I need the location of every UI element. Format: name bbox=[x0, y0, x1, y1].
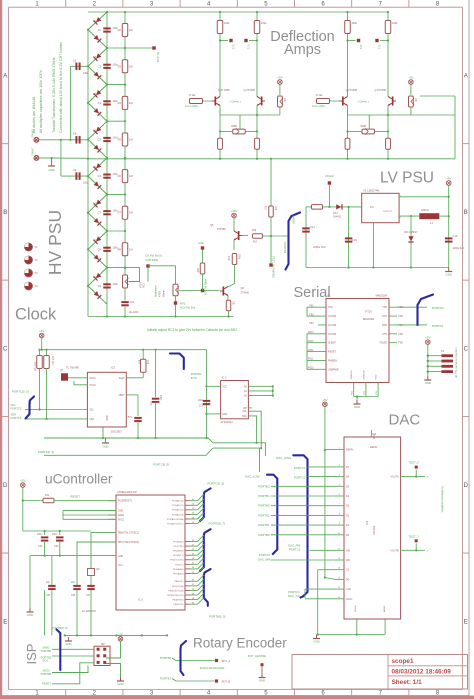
svg-text:PORTB[0..5]: PORTB[0..5] bbox=[51, 626, 68, 630]
svg-text:PORTC[0..5]: PORTC[0..5] bbox=[153, 463, 169, 467]
svg-text:GND: GND bbox=[65, 642, 71, 646]
svg-text:GND: GND bbox=[425, 381, 431, 385]
svg-text:E: E bbox=[3, 619, 7, 625]
svg-text:PORTB[0..5]: PORTB[0..5] bbox=[209, 615, 226, 619]
svg-text:C: C bbox=[3, 347, 8, 353]
svg-text:R19: R19 bbox=[252, 230, 257, 232]
svg-text:100k: 100k bbox=[392, 22, 398, 25]
svg-text:+5V: +5V bbox=[277, 76, 282, 80]
svg-text:50VAC: 50VAC bbox=[31, 147, 35, 155]
svg-text:1M: 1M bbox=[129, 138, 133, 142]
svg-text:B: B bbox=[3, 210, 7, 216]
svg-text:All diodes are 1N4148: All diodes are 1N4148 bbox=[32, 97, 36, 133]
svg-text:F87: F87 bbox=[399, 324, 404, 327]
svg-text:4# TTL serial connection: 4# TTL serial connection bbox=[454, 347, 458, 378]
svg-text:PORTB6: PORTB6 bbox=[160, 656, 172, 660]
svg-text:TEST_Y: TEST_Y bbox=[408, 534, 419, 538]
svg-text:R11 1k0: R11 1k0 bbox=[35, 361, 37, 370]
svg-text:D15: D15 bbox=[93, 277, 98, 279]
svg-text:1M: 1M bbox=[129, 174, 133, 178]
svg-text:ECW1J-B24-BC0024L: ECW1J-B24-BC0024L bbox=[200, 667, 226, 670]
svg-text:GND: GND bbox=[107, 415, 109, 420]
svg-text:RTS: RTS bbox=[382, 315, 387, 318]
svg-text:PD1(TXD): PD1(TXD) bbox=[173, 546, 183, 548]
svg-text:C4: C4 bbox=[98, 101, 102, 105]
svg-text:PORTB4: PORTB4 bbox=[41, 649, 52, 653]
svg-text:GND: GND bbox=[103, 445, 109, 449]
svg-text:MM232R: MM232R bbox=[363, 317, 374, 321]
svg-text:IC 5: IC 5 bbox=[138, 598, 143, 602]
svg-text:ACM Pot End: ACM Pot End bbox=[180, 307, 196, 310]
svg-text:IC4: IC4 bbox=[365, 520, 369, 525]
svg-text:From ADC: From ADC bbox=[185, 104, 198, 108]
svg-text:PB2(SS/OC1B): PB2(SS/OC1B) bbox=[168, 590, 183, 592]
svg-text:D: D bbox=[3, 483, 8, 489]
svg-text:LV PSU: LV PSU bbox=[380, 170, 434, 187]
svg-text:PB1(OC1A): PB1(OC1A) bbox=[172, 585, 184, 588]
svg-text:R4: R4 bbox=[118, 101, 122, 105]
svg-text:5.0: 5.0 bbox=[370, 205, 374, 209]
svg-text:scope1: scope1 bbox=[392, 658, 414, 665]
svg-text:08/03/2012 18:46:09: 08/03/2012 18:46:09 bbox=[392, 668, 452, 675]
svg-text:2200u 35V: 2200u 35V bbox=[313, 245, 326, 249]
svg-text:PD2(INT0): PD2(INT0) bbox=[173, 551, 184, 553]
svg-text:VCC: VCC bbox=[222, 386, 227, 388]
svg-text:DAC_LOW: DAC_LOW bbox=[245, 474, 260, 478]
svg-text:SCL: SCL bbox=[242, 411, 247, 413]
svg-text:VOUTA: VOUTA bbox=[391, 476, 399, 479]
svg-text:A: A bbox=[464, 74, 468, 80]
svg-text:PORTC[0..5]: PORTC[0..5] bbox=[208, 482, 225, 486]
svg-text:100k: 100k bbox=[261, 22, 267, 25]
svg-text:PORTB3: PORTB3 bbox=[41, 672, 52, 676]
svg-text:X2: X2 bbox=[327, 294, 331, 298]
svg-text:FTDI: FTDI bbox=[365, 310, 371, 314]
svg-text:VCC: VCC bbox=[328, 306, 333, 309]
svg-text:R 1k2: R 1k2 bbox=[316, 94, 323, 97]
svg-text:F86: F86 bbox=[399, 315, 404, 318]
svg-text:SDA: SDA bbox=[11, 412, 17, 416]
svg-text:CS: CS bbox=[346, 569, 350, 572]
svg-text:DS1307: DS1307 bbox=[111, 429, 122, 433]
svg-text:PB6(XTAL1/TOSC1): PB6(XTAL1/TOSC1) bbox=[118, 532, 139, 535]
svg-text:PORTC5: PORTC5 bbox=[11, 407, 22, 411]
svg-text:SLEEP: SLEEP bbox=[328, 342, 336, 345]
svg-text:1N4001: 1N4001 bbox=[333, 216, 342, 219]
svg-text:ZTX450: ZTX450 bbox=[241, 291, 250, 294]
svg-text:IC 3: IC 3 bbox=[222, 377, 227, 380]
svg-text:Rotary Encoder: Rotary Encoder bbox=[193, 635, 287, 650]
svg-text:GND: GND bbox=[222, 414, 227, 416]
svg-text:Connected with about 130 turns: Connected with about 130 turns to the 6.… bbox=[59, 41, 63, 133]
svg-text:ROT_B: ROT_B bbox=[222, 680, 231, 683]
svg-text:PD4(XCK/T0): PD4(XCK/T0) bbox=[170, 560, 184, 562]
svg-text:D13 1N5817: D13 1N5817 bbox=[404, 231, 418, 234]
svg-text:Serial: Serial bbox=[294, 285, 331, 301]
svg-text:+5V: +5V bbox=[39, 329, 44, 333]
svg-text:LDAC: LDAC bbox=[346, 598, 353, 601]
svg-text:220uH: 220uH bbox=[421, 208, 429, 212]
svg-text:PORTB7: PORTB7 bbox=[160, 677, 172, 681]
svg-text:PORTD2: PORTD2 bbox=[191, 372, 202, 376]
svg-text:Q ZTX458: Q ZTX458 bbox=[218, 89, 230, 92]
svg-text:C15: C15 bbox=[352, 238, 357, 242]
svg-text:AVCC: AVCC bbox=[118, 518, 125, 521]
svg-text:PORTC[0..5]: PORTC[0..5] bbox=[12, 390, 29, 394]
svg-text:R3: R3 bbox=[118, 64, 122, 68]
svg-text:PORTB4: PORTB4 bbox=[258, 494, 270, 498]
svg-text:PD7(AIN1): PD7(AIN1) bbox=[173, 572, 184, 575]
svg-text:VOUTB: VOUTB bbox=[390, 549, 399, 552]
svg-text:C9: C9 bbox=[73, 168, 77, 172]
svg-text:100n: 100n bbox=[83, 72, 89, 75]
svg-text:V1 LM2574N: V1 LM2574N bbox=[363, 189, 379, 193]
svg-text:GND: GND bbox=[198, 242, 204, 245]
svg-text:D12: D12 bbox=[333, 211, 338, 215]
svg-text:PB5(SCK): PB5(SCK) bbox=[173, 604, 183, 606]
svg-text:+45V: +45V bbox=[231, 209, 238, 213]
svg-text:HV PSU: HV PSU bbox=[45, 210, 65, 275]
svg-text:PORTC2: PORTC2 bbox=[289, 548, 301, 552]
svg-text:PC6(RESET): PC6(RESET) bbox=[118, 501, 132, 503]
svg-text:C22: C22 bbox=[199, 405, 204, 407]
svg-text:TEST_X: TEST_X bbox=[408, 461, 419, 465]
svg-text:1M: 1M bbox=[129, 211, 133, 215]
svg-text:PC4(ADC4/SDA): PC4(ADC4/SDA) bbox=[167, 518, 184, 521]
svg-text:F85: F85 bbox=[399, 306, 404, 309]
svg-text:200k: 200k bbox=[238, 254, 240, 260]
svg-text:RC1: RC1 bbox=[143, 282, 146, 288]
svg-text:C8: C8 bbox=[98, 247, 102, 251]
svg-text:F89: F89 bbox=[399, 342, 404, 345]
svg-text:C21: C21 bbox=[150, 400, 153, 405]
svg-text:F88: F88 bbox=[399, 333, 404, 336]
svg-text:PB7(XTAL2/TOSC2): PB7(XTAL2/TOSC2) bbox=[118, 541, 139, 544]
svg-text:TXLED: TXLED bbox=[379, 342, 387, 345]
svg-text:100n: 100n bbox=[37, 533, 43, 536]
svg-text:C24: C24 bbox=[54, 545, 59, 548]
svg-text:R5: R5 bbox=[118, 138, 122, 142]
svg-text:C14: C14 bbox=[310, 225, 315, 229]
svg-text:SHIELD2: SHIELD2 bbox=[363, 370, 365, 380]
svg-text:DAC_CS: DAC_CS bbox=[288, 594, 299, 598]
svg-text:Y1/2: Y1/2 bbox=[247, 45, 249, 50]
svg-text:« Drive »: « Drive » bbox=[229, 100, 241, 104]
svg-text:RESET: RESET bbox=[42, 682, 51, 686]
svg-text:C23: C23 bbox=[38, 545, 43, 548]
svg-text:DGND: DGND bbox=[355, 605, 357, 612]
svg-text:PORTD1: PORTD1 bbox=[432, 324, 444, 328]
svg-text:Initially adjust RC1 to give 2: Initially adjust RC1 to give 27v between… bbox=[147, 328, 237, 332]
svg-text:Toroidal Transformer: 0.35v 0.: Toroidal Transformer: 0.35v 0.14v RMS 17… bbox=[52, 57, 56, 133]
svg-text:VDD: VDD bbox=[372, 434, 375, 439]
svg-text:+5V: +5V bbox=[446, 177, 451, 181]
svg-text:VCC3B: VCC3B bbox=[328, 315, 336, 318]
svg-text:100n: 100n bbox=[159, 395, 162, 401]
svg-text:GND: GND bbox=[117, 682, 123, 686]
svg-text:uController: uController bbox=[45, 472, 113, 487]
svg-text:SQW: SQW bbox=[119, 378, 125, 380]
svg-text:MOSI: MOSI bbox=[43, 669, 50, 673]
svg-text:PD0(RXD): PD0(RXD) bbox=[173, 541, 184, 543]
svg-text:BT1: BT1 bbox=[128, 416, 133, 419]
svg-text:C8: C8 bbox=[73, 132, 77, 136]
svg-text:PORTC1: PORTC1 bbox=[294, 466, 306, 470]
svg-text:PD5(T1): PD5(T1) bbox=[175, 564, 184, 566]
svg-text:GND: GND bbox=[27, 613, 33, 617]
svg-text:D: D bbox=[464, 483, 469, 489]
svg-text:C: C bbox=[464, 347, 469, 353]
svg-text:PWREN: PWREN bbox=[328, 359, 337, 362]
svg-text:PD3(INT1): PD3(INT1) bbox=[173, 555, 184, 557]
svg-text:SCK: SCK bbox=[42, 659, 48, 663]
svg-text:PC0(ADC0): PC0(ADC0) bbox=[172, 500, 184, 503]
svg-text:1000u 6v3: 1000u 6v3 bbox=[453, 247, 465, 250]
svg-text:GND: GND bbox=[313, 640, 319, 644]
svg-text:X1/2: X1/2 bbox=[359, 45, 361, 50]
svg-text:+5V: +5V bbox=[408, 76, 413, 80]
svg-text:All multiplier capacitors are: All multiplier capacitors are 100n 100V bbox=[39, 70, 43, 133]
svg-text:WR: WR bbox=[346, 559, 350, 562]
svg-text:D13: D13 bbox=[93, 240, 98, 242]
svg-text:Sheet: 1/1: Sheet: 1/1 bbox=[392, 679, 423, 686]
svg-text:A/B: A/B bbox=[346, 549, 350, 552]
svg-text:E: E bbox=[464, 619, 468, 625]
svg-text:PC1(ADC1): PC1(ADC1) bbox=[172, 504, 184, 507]
svg-text:GND: GND bbox=[118, 510, 123, 512]
svg-text:GND: GND bbox=[259, 679, 265, 683]
svg-text:C9: C9 bbox=[98, 284, 102, 288]
svg-text:SHIELD1: SHIELD1 bbox=[351, 370, 353, 380]
svg-text:MAINS: MAINS bbox=[292, 215, 296, 224]
svg-text:OSC1: OSC1 bbox=[89, 378, 96, 380]
svg-text:TXD: TXD bbox=[382, 306, 387, 309]
svg-text:R20: R20 bbox=[198, 267, 200, 272]
svg-text:ISP: ISP bbox=[101, 643, 105, 646]
svg-text:R7: R7 bbox=[118, 211, 122, 215]
svg-text:1M: 1M bbox=[129, 247, 133, 251]
svg-text:PORTB2: PORTB2 bbox=[258, 513, 270, 517]
svg-text:100k: 100k bbox=[224, 22, 230, 25]
svg-text:MP1 Pot Wiper: MP1 Pot Wiper bbox=[205, 279, 208, 295]
svg-text:REFIN: REFIN bbox=[346, 448, 353, 451]
svg-text:C2: C2 bbox=[98, 28, 102, 32]
svg-text:R 1k2: R 1k2 bbox=[189, 94, 196, 97]
svg-text:1M: 1M bbox=[129, 64, 133, 68]
svg-text:PORTB1: PORTB1 bbox=[258, 523, 270, 527]
svg-text:GND: GND bbox=[376, 374, 378, 379]
svg-text:+5V: +5V bbox=[322, 398, 327, 402]
svg-text:+5V: +5V bbox=[425, 336, 430, 340]
svg-text:DAC: DAC bbox=[389, 412, 421, 429]
svg-text:VBAT: VBAT bbox=[118, 394, 124, 397]
svg-text:C20: C20 bbox=[130, 301, 135, 304]
svg-text:C7: C7 bbox=[98, 211, 102, 215]
svg-text:DAC_HIGH: DAC_HIGH bbox=[276, 456, 291, 460]
svg-text:Q6: Q6 bbox=[241, 286, 245, 290]
svg-text:From ADC: From ADC bbox=[312, 104, 325, 108]
svg-text:Clock: Clock bbox=[15, 306, 57, 324]
svg-text:CTS: CTS bbox=[382, 333, 387, 336]
svg-text:C26: C26 bbox=[71, 595, 76, 597]
svg-text:330R: 330R bbox=[231, 125, 237, 128]
svg-text:R12: R12 bbox=[274, 206, 276, 211]
svg-text:F84: F84 bbox=[309, 322, 314, 325]
svg-text:PORTB5: PORTB5 bbox=[258, 504, 270, 508]
svg-text:RXD: RXD bbox=[382, 324, 387, 327]
svg-text:10u 100V: 10u 100V bbox=[129, 311, 140, 314]
svg-text:GND: GND bbox=[354, 405, 360, 409]
svg-text:DAC_WR: DAC_WR bbox=[258, 557, 270, 561]
svg-text:Amps: Amps bbox=[284, 42, 321, 58]
svg-text:SDA: SDA bbox=[89, 418, 94, 421]
svg-text:TC 768 6P8: TC 768 6P8 bbox=[66, 367, 79, 370]
svg-text:PORTD4: PORTD4 bbox=[283, 242, 287, 254]
svg-text:22.1184MHz: 22.1184MHz bbox=[82, 610, 97, 613]
svg-text:PB0(ICP): PB0(ICP) bbox=[174, 581, 184, 583]
svg-text:16mm: 16mm bbox=[163, 290, 166, 297]
svg-text:PORTB3: PORTB3 bbox=[258, 484, 270, 488]
svg-text:C6: C6 bbox=[98, 174, 102, 178]
svg-text:PD: PD bbox=[346, 578, 350, 581]
svg-text:1M: 1M bbox=[129, 28, 133, 32]
svg-text:AT24C512: AT24C512 bbox=[221, 420, 234, 424]
svg-text:C27: C27 bbox=[86, 595, 91, 597]
svg-text:+5V: +5V bbox=[20, 479, 25, 483]
svg-text:R8: R8 bbox=[118, 247, 122, 251]
svg-text:330R: 330R bbox=[360, 125, 366, 128]
svg-text:GND: GND bbox=[446, 273, 452, 277]
svg-text:« Drive »: « Drive » bbox=[357, 100, 369, 104]
svg-text:ISP: ISP bbox=[24, 644, 39, 665]
svg-text:Q ZTX458: Q ZTX458 bbox=[243, 89, 255, 92]
svg-text:C16: C16 bbox=[453, 234, 458, 238]
svg-text:OUTPUT: OUTPUT bbox=[383, 211, 393, 213]
svg-text:PORTC2: PORTC2 bbox=[294, 476, 306, 480]
svg-text:AGND: AGND bbox=[383, 605, 386, 612]
svg-text:PORTD[0..7]: PORTD[0..7] bbox=[209, 522, 226, 526]
svg-text:PORTD0: PORTD0 bbox=[432, 306, 444, 310]
svg-text:A: A bbox=[3, 74, 7, 80]
svg-text:R6: R6 bbox=[118, 174, 122, 178]
svg-text:B: B bbox=[464, 210, 468, 216]
svg-text:X1/2: X1/2 bbox=[232, 45, 234, 50]
svg-text:100k: 100k bbox=[352, 22, 358, 25]
svg-text:C1: C1 bbox=[73, 59, 77, 63]
svg-text:AD7302: AD7302 bbox=[372, 525, 376, 535]
svg-text:100n: 100n bbox=[113, 283, 119, 286]
svg-text:GND: GND bbox=[118, 556, 123, 558]
svg-text:R2: R2 bbox=[118, 28, 122, 32]
svg-text:WP: WP bbox=[243, 408, 247, 410]
svg-text:REFIN: REFIN bbox=[370, 446, 377, 449]
svg-text:SCL: SCL bbox=[11, 403, 17, 407]
svg-text:VCC3B: VCC3B bbox=[328, 333, 336, 336]
svg-text:AREF: AREF bbox=[118, 514, 125, 517]
svg-text:RESET: RESET bbox=[328, 351, 337, 354]
svg-text:Brightness: Brightness bbox=[155, 284, 158, 297]
svg-text:MP2: MP2 bbox=[180, 303, 186, 306]
svg-text:Y1/2: Y1/2 bbox=[378, 45, 380, 50]
svg-text:1M: 1M bbox=[129, 101, 133, 105]
svg-text:C3: C3 bbox=[98, 64, 102, 68]
svg-text:VCC: VCC bbox=[118, 565, 123, 567]
svg-text:Q5: Q5 bbox=[210, 223, 214, 227]
svg-text:PC2(ADC2): PC2(ADC2) bbox=[172, 509, 184, 512]
svg-text:GND: GND bbox=[48, 168, 54, 172]
svg-text:CATHODE: CATHODE bbox=[145, 258, 158, 262]
svg-text:USBPWR: USBPWR bbox=[328, 368, 339, 371]
svg-text:/RESET: /RESET bbox=[70, 495, 80, 499]
svg-text:INT0: INT0 bbox=[191, 376, 197, 380]
svg-text:+5V: +5V bbox=[118, 632, 123, 636]
svg-text:PORTB0: PORTB0 bbox=[258, 533, 270, 537]
svg-text:IC2: IC2 bbox=[111, 366, 116, 370]
svg-text:SCL: SCL bbox=[89, 410, 94, 412]
svg-text:ATMEGA8(XX)P: ATMEGA8(XX)P bbox=[117, 490, 137, 494]
svg-text:To deflection amplifiers: To deflection amplifiers bbox=[440, 486, 444, 513]
svg-text:KL A3/1: KL A3/1 bbox=[156, 52, 160, 63]
svg-text:CLR: CLR bbox=[346, 588, 351, 591]
svg-text:PD6(AIN0): PD6(AIN0) bbox=[173, 568, 184, 571]
svg-text:C5: C5 bbox=[98, 138, 102, 142]
svg-text:PORTC4: PORTC4 bbox=[11, 416, 22, 420]
svg-text:VCC3B: VCC3B bbox=[328, 324, 336, 327]
svg-text:TEST_BLANKING: TEST_BLANKING bbox=[272, 256, 276, 278]
svg-text:470R: 470R bbox=[159, 291, 162, 297]
svg-text:R17 1k0: R17 1k0 bbox=[51, 356, 53, 365]
svg-text:Q ZTX458: Q ZTX458 bbox=[374, 89, 386, 92]
svg-text:ROT_A: ROT_A bbox=[222, 660, 231, 663]
svg-text:PC3(ADC3): PC3(ADC3) bbox=[172, 513, 184, 516]
svg-text:100n: 100n bbox=[198, 400, 204, 402]
svg-text:PORTD[0..3]: PORTD[0..3] bbox=[38, 450, 54, 454]
svg-text:100n: 100n bbox=[83, 182, 89, 185]
svg-text:ROT_CENTRE: ROT_CENTRE bbox=[248, 654, 266, 658]
svg-text:ZTX458: ZTX458 bbox=[217, 228, 226, 231]
svg-text:OSC2: OSC2 bbox=[89, 385, 96, 387]
svg-text:100n: 100n bbox=[52, 533, 58, 536]
svg-text:Q ZTX458: Q ZTX458 bbox=[346, 89, 358, 92]
svg-text:PB3(MOSI/OC2): PB3(MOSI/OC2) bbox=[167, 595, 184, 597]
svg-text:PC5(ADC5/SCL): PC5(ADC5/SCL) bbox=[167, 522, 184, 525]
svg-text:X1: X1 bbox=[441, 349, 445, 353]
svg-text:15VAC: 15VAC bbox=[325, 174, 334, 178]
svg-text:R18: R18 bbox=[146, 360, 148, 365]
svg-text:R13: R13 bbox=[229, 255, 231, 260]
svg-text:MISO: MISO bbox=[43, 646, 50, 650]
svg-text:C25: C25 bbox=[46, 595, 51, 597]
svg-text:MM232R: MM232R bbox=[376, 294, 387, 298]
svg-text:PB4(MISO): PB4(MISO) bbox=[172, 599, 183, 601]
svg-text:SDA: SDA bbox=[242, 415, 247, 418]
svg-text:CN Pot End &: CN Pot End & bbox=[145, 253, 162, 257]
